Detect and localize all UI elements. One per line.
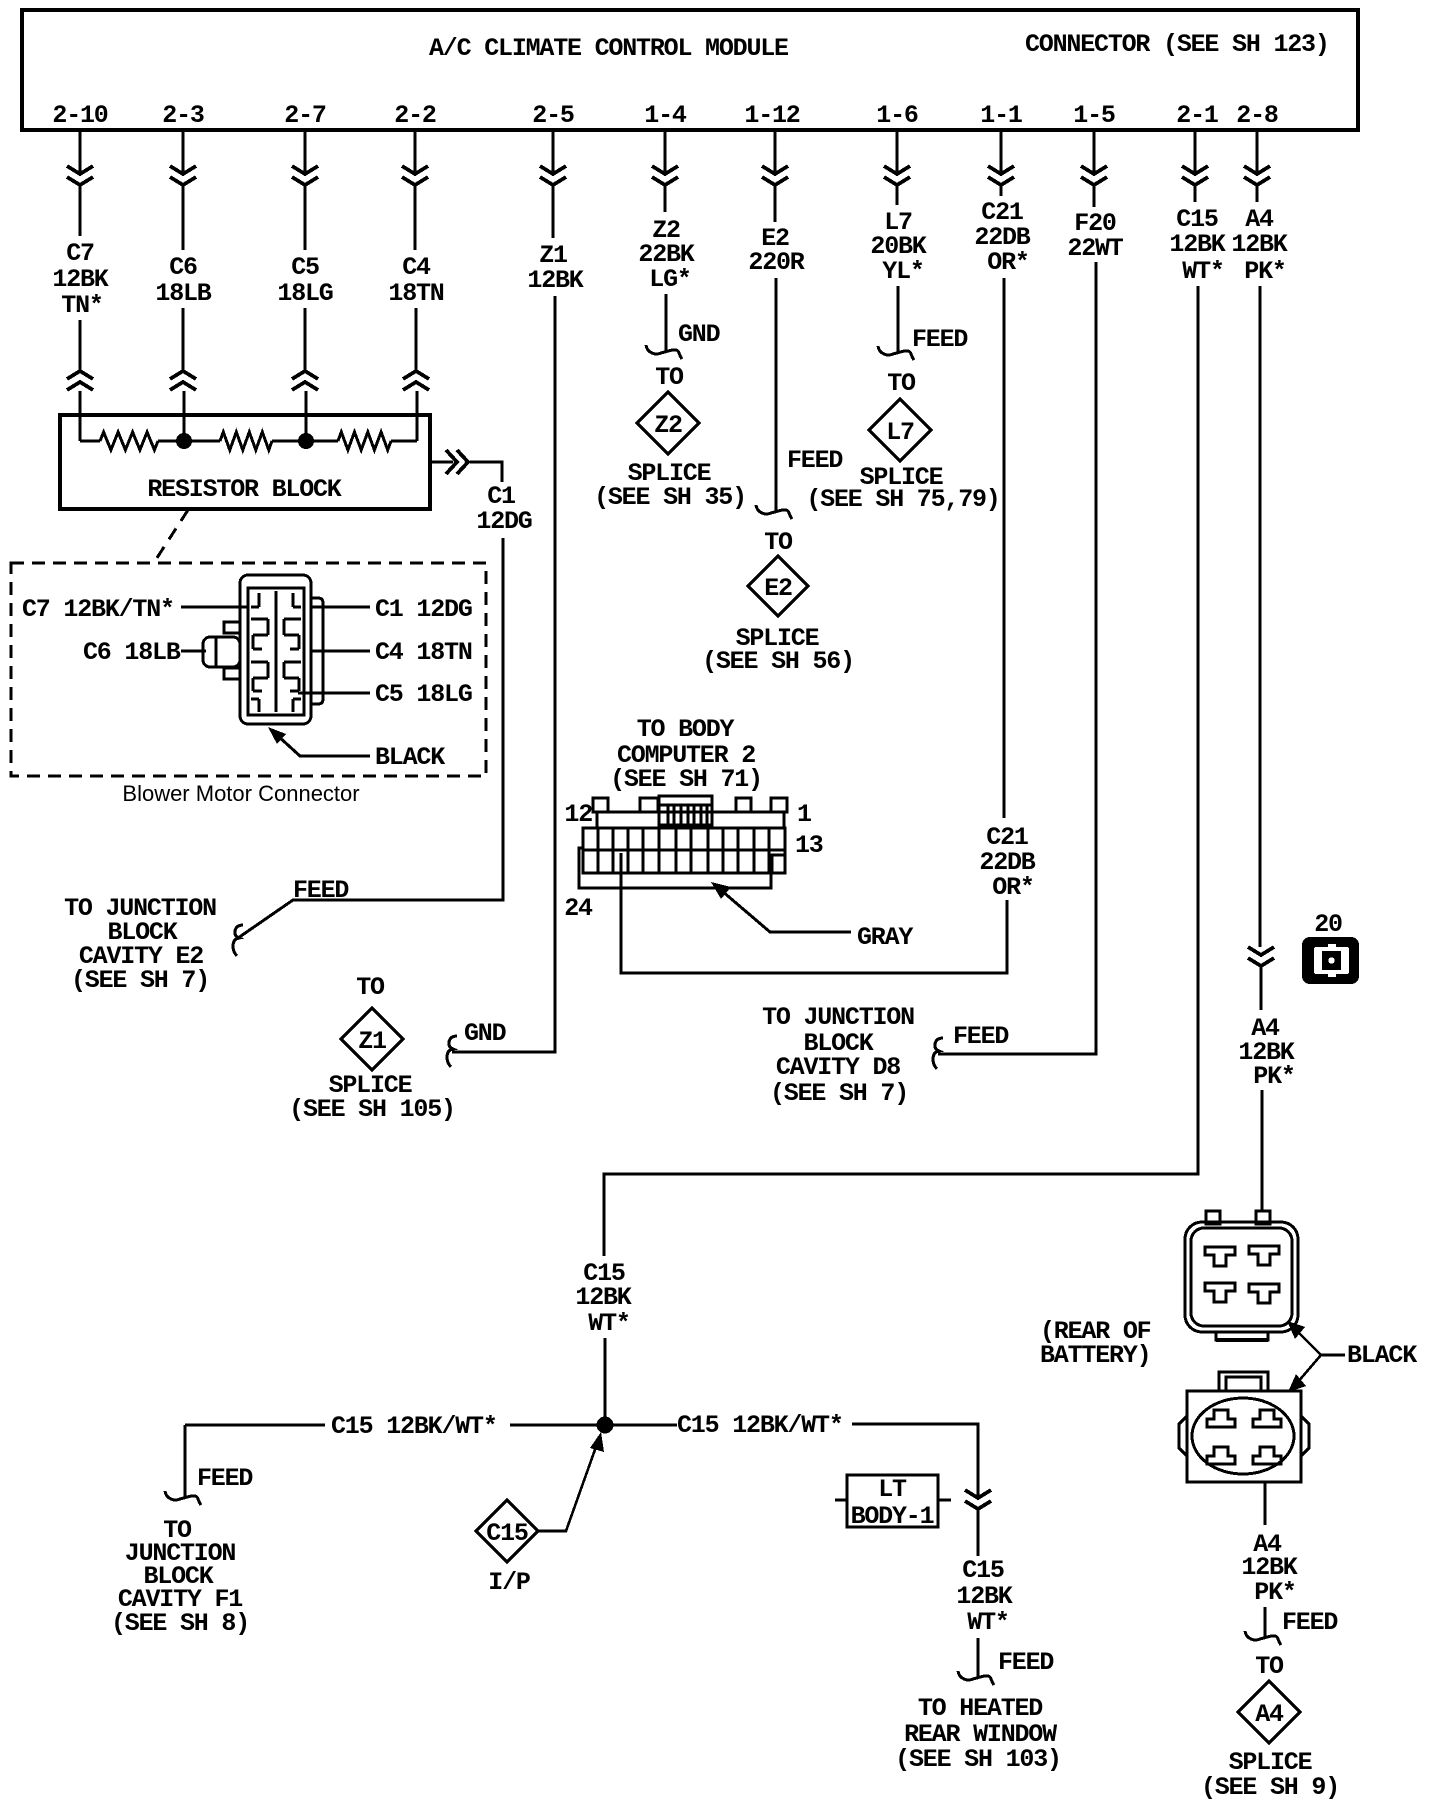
junction dot node C6 <box>176 433 192 449</box>
blower connector pin maze <box>251 591 301 712</box>
svg-text:2-2: 2-2 <box>394 101 436 130</box>
wire C15 long segment across <box>604 286 1198 1256</box>
svg-text:22WT: 22WT <box>1067 234 1123 263</box>
wire C4 upper segment <box>414 130 417 173</box>
splice chevron C4 <box>403 371 429 390</box>
wire label C4 18TN <box>388 253 443 308</box>
junction dot C15 <box>597 1417 614 1434</box>
leader arrow C15 splice to junction <box>539 1444 597 1531</box>
svg-text:I/P: I/P <box>488 1568 530 1597</box>
svg-text:C1 12DG: C1 12DG <box>375 595 472 624</box>
wire A4 below inline connector <box>1260 967 1263 1010</box>
pin leader C6 <box>181 650 206 653</box>
splice chevron C5 <box>292 371 318 390</box>
feed hook E2 <box>756 505 792 519</box>
svg-text:TO: TO <box>887 369 916 398</box>
svg-text:12BK: 12BK <box>52 265 108 294</box>
wire Z2 lower segment <box>665 294 668 353</box>
connector symbol E2 <box>762 166 788 185</box>
resistor R2 <box>220 432 272 450</box>
ground hook Z1 <box>447 1036 457 1067</box>
connector symbol L7 <box>884 166 910 185</box>
wire F20 long segment to feed turn <box>938 262 1096 1054</box>
pin H3 battery connector 2 <box>1207 1447 1235 1464</box>
wire C21 upper segment <box>1000 130 1003 173</box>
svg-text:GND: GND <box>464 1019 507 1048</box>
svg-text:FEED: FEED <box>1282 1608 1338 1637</box>
svg-text:PK*: PK* <box>1254 1578 1295 1607</box>
wire C15 branch left segment <box>185 1424 325 1427</box>
svg-text:FEED: FEED <box>998 1648 1054 1677</box>
svg-text:12BK: 12BK <box>1169 230 1225 259</box>
svg-text:TO: TO <box>1255 1652 1284 1681</box>
svg-text:1-1: 1-1 <box>980 101 1022 130</box>
svg-text:A/C CLIMATE CONTROL MODULE: A/C CLIMATE CONTROL MODULE <box>429 34 788 63</box>
svg-text:TO JUNCTION: TO JUNCTION <box>762 1003 914 1032</box>
svg-text:BATTERY): BATTERY) <box>1040 1341 1150 1370</box>
wire C15 branch into junction <box>510 1424 677 1427</box>
svg-text:24: 24 <box>564 894 593 923</box>
wire C15 left drop <box>184 1425 187 1499</box>
wire A4 to battery connector <box>1261 1090 1264 1212</box>
svg-text:C5 18LG: C5 18LG <box>375 680 472 709</box>
svg-text:BLACK: BLACK <box>1347 1341 1417 1370</box>
wire C5 into resistor block <box>305 391 308 441</box>
connector symbol F20 <box>1081 166 1107 185</box>
svg-text:18LB: 18LB <box>155 279 211 308</box>
svg-text:(SEE SH 7): (SEE SH 7) <box>71 966 209 995</box>
svg-text:CONNECTOR (SEE SH 123): CONNECTOR (SEE SH 123) <box>1025 30 1329 59</box>
svg-text:TN*: TN* <box>61 291 102 320</box>
wire label C21 22DB OR* repeat <box>979 823 1035 902</box>
svg-text:C5: C5 <box>291 253 319 282</box>
svg-text:TO: TO <box>764 528 793 557</box>
svg-text:PK*: PK* <box>1244 257 1285 286</box>
TO HEATED REAR WINDOW note <box>895 1694 1061 1774</box>
A/C climate control module box U1 <box>22 10 1358 130</box>
svg-text:18TN: 18TN <box>388 279 443 308</box>
wire Z1 to label <box>552 186 555 238</box>
svg-text:C15: C15 <box>962 1556 1004 1585</box>
svg-text:C15 12BK/WT*: C15 12BK/WT* <box>677 1411 843 1440</box>
feed hook L7 <box>878 346 914 360</box>
wire label A4 12BK PK* <box>1231 205 1287 286</box>
leader arrow GRAY <box>722 891 851 932</box>
TO JUNCTION BLOCK CAVITY F1 note <box>111 1516 249 1638</box>
svg-text:TO HEATED: TO HEATED <box>918 1694 1043 1723</box>
splice symbol A4 <box>1238 1681 1300 1743</box>
svg-text:13: 13 <box>795 831 823 860</box>
svg-text:20: 20 <box>1314 910 1342 939</box>
wire C21 middle segment <box>1003 278 1006 818</box>
svg-text:2-3: 2-3 <box>162 101 204 130</box>
wire E2 lower segment <box>775 278 778 513</box>
wire A4 to label <box>1256 186 1259 202</box>
wire C7 into resistor block <box>79 391 82 441</box>
blower motor connector body J1 <box>203 575 323 724</box>
blower motor connector dashed box <box>11 563 486 776</box>
wire C15 heated segment <box>977 1510 980 1556</box>
svg-text:C15 12BK/WT*: C15 12BK/WT* <box>331 1412 497 1441</box>
wire Z2 to label <box>664 186 667 212</box>
svg-text:12BK: 12BK <box>575 1283 631 1312</box>
svg-text:GND: GND <box>678 320 721 349</box>
feed hook F20 <box>933 1038 943 1069</box>
svg-text:WT*: WT* <box>1182 257 1223 286</box>
inline connector symbol C15 heated <box>965 1490 991 1509</box>
svg-text:C6 18LB: C6 18LB <box>83 638 181 667</box>
svg-text:C15: C15 <box>486 1519 528 1548</box>
leader arrow BLACK blower <box>278 736 370 756</box>
TO JUNCTION BLOCK CAVITY E2 note <box>64 894 216 995</box>
wire C15 upper segment <box>1194 130 1197 173</box>
svg-text:FEED: FEED <box>787 446 843 475</box>
svg-text:12BK: 12BK <box>1231 230 1287 259</box>
svg-text:1-12: 1-12 <box>744 101 799 130</box>
wire label L7 20BK YL* <box>870 208 926 286</box>
splice symbol Z1 <box>341 1008 403 1070</box>
svg-text:1-5: 1-5 <box>1073 101 1115 130</box>
svg-text:12: 12 <box>564 800 592 829</box>
svg-text:12BK: 12BK <box>527 266 583 295</box>
wire label A4 12BK PK* mid <box>1238 1014 1294 1091</box>
svg-text:TO: TO <box>356 973 385 1002</box>
wire label C5 18LG <box>277 253 332 308</box>
wire Z1 long segment to ground turn <box>452 296 555 1052</box>
resistor R3 <box>338 432 391 450</box>
wire C4 to label <box>414 186 417 250</box>
pin H4 battery connector 2 <box>1253 1447 1281 1464</box>
wire label C15 12BK WT* mid <box>575 1259 631 1338</box>
resistor R1 <box>100 432 158 450</box>
svg-text:2-1: 2-1 <box>1176 101 1218 130</box>
svg-text:Z1: Z1 <box>358 1027 386 1056</box>
wire A4 below battery connectors <box>1264 1482 1267 1525</box>
battery connector J3 body <box>1185 1211 1298 1340</box>
svg-text:C6: C6 <box>169 253 197 282</box>
svg-text:BLACK: BLACK <box>375 743 445 772</box>
svg-text:(SEE SH 8): (SEE SH 8) <box>111 1609 249 1638</box>
wire C1 out of resistor block <box>430 461 453 464</box>
svg-text:12BK: 12BK <box>956 1582 1012 1611</box>
pin leader C5 <box>298 692 370 695</box>
connector symbol Z1 <box>540 166 566 185</box>
wire E2 to label <box>774 186 777 222</box>
pin H2 battery connector 2 <box>1253 1410 1281 1427</box>
svg-text:2-7: 2-7 <box>284 101 326 130</box>
wire label F20 22WT <box>1067 209 1123 263</box>
svg-text:TO BODY: TO BODY <box>637 715 735 744</box>
wire label C6 18LB <box>155 253 211 308</box>
pin T3 battery connector <box>1205 1283 1235 1302</box>
svg-text:(SEE SH 105): (SEE SH 105) <box>289 1095 455 1124</box>
wire L7 upper segment <box>896 130 899 173</box>
svg-text:OR*: OR* <box>987 248 1028 277</box>
svg-text:(SEE SH 35): (SEE SH 35) <box>594 483 746 512</box>
wire label E2 220R <box>748 224 804 277</box>
wire label C21 22DB OR* <box>974 198 1030 277</box>
wire label C7 12BK TN* <box>52 239 108 320</box>
svg-text:1-6: 1-6 <box>876 101 918 130</box>
battery connector J4 body <box>1179 1372 1309 1482</box>
wire C1 to corner <box>470 462 502 482</box>
wire label Z2 22BK LG* <box>638 216 694 294</box>
wire F20 upper segment <box>1093 130 1096 173</box>
pin T4 battery connector <box>1249 1284 1279 1303</box>
svg-text:FEED: FEED <box>953 1022 1009 1051</box>
wire C7 lower segment <box>79 320 82 370</box>
TO BODY COMPUTER 2 note <box>610 715 762 794</box>
resistor block bus wire <box>80 440 417 443</box>
svg-text:2-5: 2-5 <box>532 101 574 130</box>
svg-text:WT*: WT* <box>588 1309 629 1338</box>
splice symbol Z2 <box>637 392 699 454</box>
splice symbol E2 <box>748 556 808 616</box>
connector symbol C15 <box>1182 166 1208 185</box>
inline connector symbol A4 <box>1248 947 1274 966</box>
svg-text:E2: E2 <box>764 574 792 603</box>
wire L7 lower segment <box>897 286 900 354</box>
wire C5 to label <box>304 186 307 250</box>
wire C6 lower segment <box>182 308 185 370</box>
wire label A4 12BK PK* bottom <box>1241 1530 1297 1607</box>
feed hook A4 <box>1245 1631 1281 1645</box>
svg-text:(SEE SH 9): (SEE SH 9) <box>1201 1773 1339 1802</box>
wire Z1 upper segment <box>552 130 555 173</box>
wire C1 down segment <box>238 538 503 938</box>
wire L7 to label <box>896 186 899 205</box>
wire label C15 12BK WT* heated <box>956 1556 1012 1637</box>
connector symbol C4 <box>402 166 428 185</box>
pin leader C4 <box>311 650 370 653</box>
svg-text:L7: L7 <box>886 418 914 447</box>
LT BODY-1 fuse box <box>835 1475 951 1527</box>
junction dot node C5 <box>298 433 314 449</box>
TO JUNCTION BLOCK CAVITY D8 note <box>762 1003 914 1108</box>
svg-text:LT: LT <box>878 1475 907 1504</box>
wire C15 to junction <box>604 1338 607 1425</box>
leader arrow BLACK to battery connectors <box>1296 1330 1345 1383</box>
svg-text:PK*: PK* <box>1253 1062 1294 1091</box>
svg-text:18LG: 18LG <box>277 279 332 308</box>
svg-text:(SEE SH 7): (SEE SH 7) <box>770 1079 908 1108</box>
svg-text:220R: 220R <box>748 248 804 277</box>
wire A4 long segment <box>1259 286 1262 947</box>
svg-text:(SEE SH 75,79): (SEE SH 75,79) <box>806 485 999 514</box>
wire label C1 12DG <box>476 482 531 536</box>
connector symbol C21 <box>988 166 1014 185</box>
connector symbol C1 <box>446 450 468 474</box>
svg-text:FEED: FEED <box>293 876 349 905</box>
wire C7 upper segment <box>79 130 82 173</box>
svg-text:C4 18TN: C4 18TN <box>375 638 472 667</box>
wire Z2 upper segment <box>664 130 667 173</box>
wire E2 upper segment <box>774 130 777 173</box>
svg-text:(SEE SH 56): (SEE SH 56) <box>702 647 854 676</box>
wire C7 to label <box>79 186 82 236</box>
svg-text:1: 1 <box>797 800 811 829</box>
connector symbol C7 <box>67 166 93 185</box>
wire C6 into resistor block <box>183 391 186 441</box>
wire C4 lower segment <box>415 308 418 370</box>
pin H1 battery connector 2 <box>1207 1410 1235 1427</box>
svg-text:OR*: OR* <box>992 873 1033 902</box>
feed hook C1 <box>233 925 243 956</box>
feed hook C15 heated <box>958 1671 994 1685</box>
svg-text:12DG: 12DG <box>476 507 531 536</box>
svg-text:YL*: YL* <box>882 257 923 286</box>
pin leader C7 <box>181 606 248 609</box>
svg-text:FEED: FEED <box>197 1464 253 1493</box>
wire C4 into resistor block <box>416 391 419 441</box>
pin leader C1 <box>311 606 370 609</box>
svg-text:C7 12BK/TN*: C7 12BK/TN* <box>22 595 174 624</box>
svg-text:(SEE SH 103): (SEE SH 103) <box>895 1745 1061 1774</box>
wire C15 heated drop <box>977 1638 980 1679</box>
connector symbol C5 <box>292 166 318 185</box>
wire C5 upper segment <box>304 130 307 173</box>
pin T2 battery connector <box>1249 1246 1279 1265</box>
svg-text:A4: A4 <box>1255 1700 1284 1729</box>
svg-text:GRAY: GRAY <box>857 923 913 952</box>
wire F20 to label <box>1093 186 1096 207</box>
wire A4 drop to feed <box>1264 1607 1267 1639</box>
svg-text:Blower Motor Connector: Blower Motor Connector <box>122 781 359 806</box>
splice chevron C7 <box>67 371 93 390</box>
svg-text:2-10: 2-10 <box>52 101 107 130</box>
svg-text:C4: C4 <box>402 253 431 282</box>
feed hook C15 left <box>165 1491 201 1505</box>
svg-text:BODY-1: BODY-1 <box>851 1502 934 1531</box>
splice chevron C6 <box>170 371 196 390</box>
svg-text:C7: C7 <box>66 239 94 268</box>
svg-text:2-8: 2-8 <box>1236 101 1278 130</box>
svg-text:Z2: Z2 <box>654 411 682 440</box>
wire C15 to label <box>1194 186 1197 202</box>
resistor block RB1 <box>60 415 430 509</box>
wire C6 upper segment <box>182 130 185 173</box>
connector symbol C6 <box>170 166 196 185</box>
splice symbol L7 <box>869 399 931 461</box>
wire C21 to body computer connector <box>621 853 1007 973</box>
connector symbol A4 <box>1244 166 1270 185</box>
grommet 20 icon <box>1302 937 1359 984</box>
body computer connector J2 <box>579 796 787 888</box>
wire A4 upper segment <box>1256 130 1259 173</box>
connector symbol Z2 <box>652 166 678 185</box>
dashed leader from resistor block to blower connector detail <box>153 510 188 564</box>
svg-text:(SEE SH 71): (SEE SH 71) <box>610 765 762 794</box>
svg-text:FEED: FEED <box>912 325 968 354</box>
wire C6 to label <box>182 186 185 250</box>
pin T1 battery connector <box>1205 1247 1235 1266</box>
svg-text:WT*: WT* <box>967 1608 1008 1637</box>
svg-text:RESISTOR BLOCK: RESISTOR BLOCK <box>147 475 341 504</box>
splice symbol C15 <box>476 1500 538 1562</box>
svg-text:CAVITY D8: CAVITY D8 <box>776 1053 900 1082</box>
wire C21 to label <box>1000 186 1003 196</box>
wire label Z1 12BK <box>527 241 583 295</box>
ground hook Z2 <box>646 345 682 359</box>
wire C15 branch right segment <box>852 1424 978 1496</box>
svg-text:LG*: LG* <box>649 265 690 294</box>
wire C5 lower segment <box>304 308 307 370</box>
wire label C15 12BK WT* <box>1169 205 1225 286</box>
svg-text:1-4: 1-4 <box>644 101 687 130</box>
svg-text:TO: TO <box>655 363 684 392</box>
